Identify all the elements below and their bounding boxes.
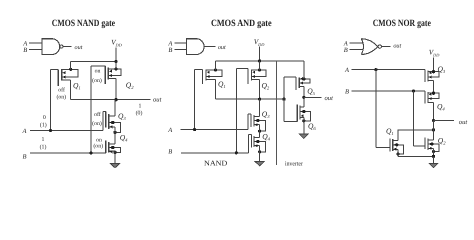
- svg-text:on: on: [95, 69, 101, 75]
- svg-text:VDD: VDD: [111, 39, 122, 48]
- svg-text:off: off: [58, 86, 65, 93]
- svg-text:A: A: [344, 67, 349, 74]
- svg-text:off: off: [94, 111, 101, 118]
- svg-text:B: B: [23, 47, 27, 54]
- svg-text:B: B: [23, 154, 27, 161]
- svg-text:Q4: Q4: [437, 102, 445, 113]
- svg-text:out: out: [75, 44, 83, 51]
- svg-text:B: B: [168, 47, 172, 54]
- svg-text:VDD: VDD: [429, 49, 440, 58]
- svg-text:0: 0: [43, 115, 46, 121]
- svg-text:Q5: Q5: [307, 87, 315, 98]
- svg-text:Q2: Q2: [262, 81, 270, 92]
- svg-text:out: out: [218, 44, 226, 51]
- svg-text:Q4: Q4: [262, 132, 270, 143]
- svg-text:(1): (1): [40, 143, 47, 150]
- svg-text:out: out: [393, 43, 401, 50]
- svg-text:NAND: NAND: [204, 158, 227, 167]
- svg-text:(on): (on): [93, 143, 103, 150]
- svg-text:B: B: [168, 149, 172, 156]
- svg-text:out: out: [153, 96, 162, 103]
- svg-text:B: B: [345, 88, 349, 95]
- svg-text:CMOS NAND gate: CMOS NAND gate: [52, 18, 116, 29]
- svg-text:Q3: Q3: [438, 65, 446, 76]
- svg-text:(on): (on): [56, 94, 66, 101]
- svg-text:CMOS AND gate: CMOS AND gate: [211, 18, 272, 29]
- svg-text:A: A: [167, 127, 172, 134]
- svg-text:1: 1: [42, 137, 45, 143]
- svg-text:(1): (1): [40, 121, 47, 128]
- svg-text:B: B: [344, 47, 348, 54]
- svg-text:on: on: [96, 137, 102, 143]
- svg-text:A: A: [22, 128, 27, 135]
- svg-text:Q2: Q2: [126, 81, 134, 92]
- svg-text:VDD: VDD: [254, 38, 265, 47]
- svg-text:Q2: Q2: [438, 136, 446, 147]
- svg-text:Q6: Q6: [308, 122, 316, 133]
- svg-text:Q3: Q3: [118, 111, 126, 122]
- svg-text:(on): (on): [92, 120, 102, 127]
- svg-text:out: out: [459, 119, 468, 126]
- svg-text:Q3: Q3: [262, 109, 270, 120]
- svg-text:(0): (0): [136, 109, 143, 116]
- svg-text:CMOS NOR gate: CMOS NOR gate: [373, 18, 432, 29]
- svg-text:Q4: Q4: [120, 133, 128, 144]
- svg-text:out: out: [324, 95, 333, 102]
- svg-text:inverter: inverter: [285, 160, 303, 167]
- svg-text:Q1: Q1: [386, 127, 394, 138]
- svg-text:Q1: Q1: [218, 80, 226, 91]
- svg-text:Q1: Q1: [73, 81, 81, 92]
- svg-text:(on): (on): [92, 77, 102, 84]
- svg-text:1: 1: [139, 103, 142, 109]
